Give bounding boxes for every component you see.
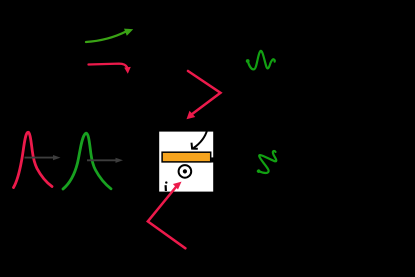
black curved arrow (inside box pointing at bar) [192,130,208,149]
red zigzag arrow (bottom, pointing up-right at current symbol) [148,182,186,249]
red arrow (horizontal, bends down at tip) [89,64,131,74]
gray arrow through red peak [25,155,61,160]
label i (current) [165,181,167,191]
red bent arrow (pointing down-left to sample box) [187,71,221,119]
green curved arrow (top, pump path) [86,29,133,42]
black nub at box right edge [211,157,214,162]
current symbol: circle with dot (out of page) [179,165,192,178]
green spectrum peak (bottom left) with tail [63,133,111,189]
green wave packet (diagonal, lower right) [250,145,281,177]
sample box (white) [159,132,213,192]
gray arrow through green peak [87,158,123,163]
orange bar (sample layer) [162,152,211,162]
red spectrum peak (bottom left) with tail [14,132,53,187]
green wave packet (upper right) [246,51,275,69]
